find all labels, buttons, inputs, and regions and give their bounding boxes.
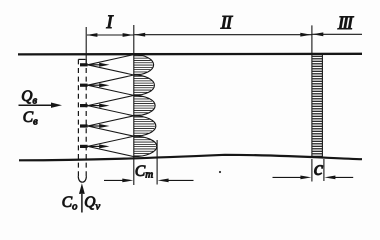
speck: [219, 171, 221, 173]
jet velocity arrow 4: [88, 125, 100, 127]
concentration profile lobe 5 (hatched): [134, 136, 157, 156]
jet velocity arrow 3: [88, 105, 100, 107]
concentration profile lobe 1 (hatched): [134, 55, 154, 75]
jet velocity arrow 2: [88, 84, 100, 86]
bottom channel wall: [19, 155, 362, 161]
c dimension left arrow: [273, 176, 302, 178]
jet boundary lower line 3: [88, 106, 134, 116]
injected flow arrow Qv (upward into slot): [81, 194, 83, 213]
jet velocity arrow 5: [88, 145, 100, 147]
extension line at initial-zone end (x=134), also profile baseline: [133, 25, 135, 185]
dimension line I: [87, 34, 133, 36]
extension line for cm at x=157: [156, 140, 158, 185]
jet orifice bar 1: [80, 63, 88, 66]
dimension line III (single arrow pointing left): [312, 33, 362, 35]
svg-text:c: c: [314, 156, 324, 180]
svg-text:Cm: Cm: [135, 163, 153, 181]
svg-text:I: I: [105, 12, 114, 33]
jet orifice bar 2: [80, 84, 88, 87]
jet orifice bar 3: [80, 104, 88, 107]
concentration profile lobe 4 (hatched): [134, 116, 156, 136]
svg-text:III: III: [337, 13, 355, 34]
jet boundary lower line 5: [88, 146, 134, 156]
jet boundary upper line 2: [88, 75, 134, 85]
jet boundary lower line 2: [88, 85, 134, 95]
concentration profile lobe 2 (hatched): [134, 75, 155, 95]
jet boundary upper line 3: [88, 95, 134, 105]
main flow arrow: [19, 104, 53, 106]
jet boundary upper line 4: [88, 116, 134, 126]
jet orifice bar 5: [80, 145, 88, 148]
svg-text:Cв: Cв: [23, 109, 38, 128]
supply slot left dashed wall: [77, 59, 79, 176]
jet boundary upper line 1: [88, 55, 134, 65]
top channel wall: [18, 53, 362, 56]
extension line at slot exit (x=86) for dimension I: [85, 27, 87, 63]
supply slot top edge: [78, 58, 85, 60]
jet boundary lower line 4: [88, 126, 134, 136]
extension line for c at x=324: [323, 159, 325, 181]
jet orifice bar 4: [80, 124, 88, 127]
strip right edge: [321, 55, 323, 158]
c dimension right arrow: [334, 176, 353, 178]
svg-text:II: II: [220, 13, 234, 34]
jet velocity arrow 1: [88, 64, 100, 66]
supply slot bottom (u-shaped): [78, 176, 86, 182]
concentration profile lobe 3 (hatched): [134, 95, 155, 115]
extension line at strip (x=312): [311, 25, 313, 157]
jet boundary lower line 1: [88, 65, 134, 75]
jet boundary upper line 5: [88, 136, 134, 146]
svg-text:Co: Co: [62, 194, 78, 213]
fully-mixed zone strip (hatched): [312, 56, 322, 156]
svg-text:Qv: Qv: [84, 194, 100, 213]
supply slot right dashed wall: [85, 59, 87, 176]
dimension line II: [134, 34, 311, 36]
cm dimension left arrow: [104, 179, 124, 181]
cm dimension right arrow: [166, 179, 194, 181]
svg-text:Qв: Qв: [21, 88, 37, 107]
